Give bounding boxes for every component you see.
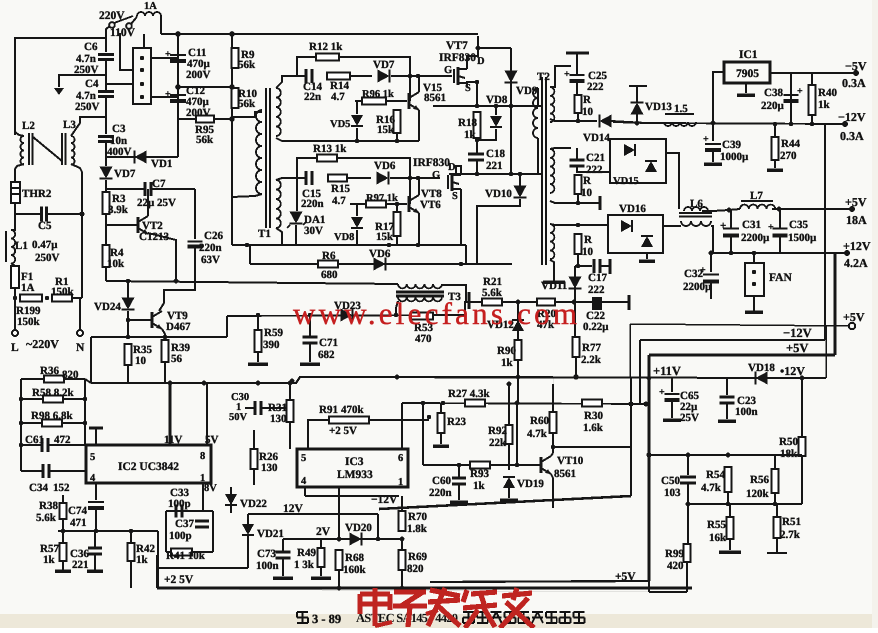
red watermark char dian (360, 591, 390, 596)
right scan band (872, 0, 878, 628)
VT10 collector (551, 453, 553, 456)
svg-text:160k: 160k (343, 564, 367, 576)
row y455 (649, 454, 802, 456)
resistor R53 (411, 313, 433, 320)
C50 col top (687, 455, 689, 475)
x339 drop (338, 487, 340, 539)
inductor L1 (11, 230, 15, 264)
R38 stub (62, 495, 64, 503)
svg-text:5.6k: 5.6k (36, 512, 57, 524)
R31 top (289, 383, 291, 400)
svg-text:4.7: 4.7 (331, 91, 345, 103)
svg-text:R40: R40 (818, 87, 837, 99)
resistor R49 (318, 548, 325, 567)
svg-text:63V: 63V (201, 254, 220, 266)
y539 x378 (376, 537, 380, 541)
svg-text:30V: 30V (304, 225, 323, 237)
wire y245 to y264 left (249, 245, 251, 264)
wire L6 top out (702, 210, 729, 211)
y504 x728 (726, 502, 730, 506)
wire w1 top lead (550, 66, 571, 87)
svg-text:VT6: VT6 (420, 199, 441, 211)
svg-text:2V: 2V (316, 526, 331, 538)
junction loop bottom 357 (355, 139, 359, 143)
svg-text:470k: 470k (341, 404, 365, 416)
wire T1 w1 top lead (276, 76, 305, 88)
resistor R54 (725, 467, 732, 492)
switch S1 lever (114, 16, 133, 23)
+5V rail (779, 208, 851, 210)
junction rail R39 (163, 335, 167, 339)
resistor R39 (162, 340, 169, 362)
svg-text:0.3A: 0.3A (842, 76, 866, 90)
bottom rail upturn (156, 555, 158, 588)
red watermark char fa (430, 590, 460, 596)
svg-text:1A: 1A (144, 1, 157, 12)
C34 lead r (49, 470, 87, 472)
junction w1 Ra (576, 119, 580, 123)
svg-text:1A: 1A (21, 282, 35, 294)
junction w3 r10c (576, 223, 580, 227)
svg-text:270: 270 (780, 150, 797, 162)
transformer T2 core (541, 77, 543, 265)
resistor R14 (327, 73, 350, 80)
row y403 (402, 403, 646, 404)
C30 leads (245, 407, 255, 409)
-12V drop line x825 (824, 124, 826, 340)
junction rail R9 (229, 31, 235, 37)
wire L7 leads (729, 209, 740, 210)
transformer T1 primary (256, 110, 262, 194)
ground C65 (663, 418, 681, 422)
svg-text:+5V: +5V (615, 571, 636, 583)
resistor R91 (329, 417, 369, 424)
resistor R90 (515, 340, 522, 360)
junction r44 rail (773, 122, 777, 126)
transformer T3 top winding (398, 284, 442, 288)
top rail y34 (161, 33, 478, 35)
svg-text:7905: 7905 (736, 68, 759, 80)
svg-text:R49: R49 (297, 547, 316, 559)
VT10 emitter (551, 474, 553, 508)
pin4 drop (304, 487, 306, 496)
junction rail q 204 (202, 381, 207, 386)
junction VD9 y174 (509, 172, 513, 176)
junction loop bottom 397 (395, 139, 399, 143)
wire selector right upper (151, 57, 178, 59)
R56 bottom (774, 493, 776, 504)
wire C31 top (730, 210, 732, 228)
svg-text:R50: R50 (779, 436, 798, 448)
svg-text:VD7: VD7 (114, 168, 136, 180)
svg-text:+: + (165, 49, 171, 60)
diode VD20 (350, 533, 362, 546)
VT10 collector row (553, 446, 631, 448)
R55 top (729, 504, 731, 517)
wire 5V drop (206, 383, 208, 445)
svg-text:D: D (477, 56, 485, 67)
y403 x423 (421, 401, 425, 405)
svg-text:L1: L1 (15, 240, 28, 252)
wire R16 bottom (396, 133, 398, 141)
wire R13 left (297, 158, 317, 178)
x649 y455 dot (646, 452, 651, 457)
svg-text:56k: 56k (238, 59, 256, 71)
wire VT2 emitter down (148, 233, 176, 281)
wire C35 bottom (779, 236, 781, 253)
pin4 column (95, 483, 97, 500)
wire VD8b bottom (356, 230, 358, 245)
junction y315 r59 (256, 313, 260, 317)
svg-text:56k: 56k (238, 98, 256, 110)
svg-text:2200μ: 2200μ (741, 232, 770, 244)
transistor VT6 (408, 196, 411, 212)
wire VT2 base (106, 224, 138, 226)
resistor R1 (52, 295, 72, 302)
ground R57 (55, 569, 71, 573)
switch S1 pole 1 (109, 22, 115, 28)
wire T1 primary top (232, 112, 262, 117)
mid rail y337 (91, 336, 227, 338)
svg-text:+: + (659, 387, 665, 398)
svg-text:120k: 120k (746, 488, 770, 500)
svg-text:R30: R30 (584, 410, 603, 422)
resistor R41 (171, 549, 192, 556)
terminal L (12, 330, 18, 336)
choke L2 top lead (15, 132, 24, 136)
wire DA1 column (296, 178, 298, 211)
svg-text:R68: R68 (345, 552, 364, 564)
svg-text:10: 10 (582, 106, 594, 118)
loop left x166 (165, 511, 167, 552)
capacitor C73 (276, 551, 291, 554)
svg-text:R: R (584, 234, 593, 246)
wire VD1 row (106, 156, 178, 158)
junction F1 R199 (13, 296, 17, 300)
svg-text:R58 8.2k: R58 8.2k (32, 387, 74, 399)
wire base row y204 (350, 203, 407, 205)
svg-text:VD16: VD16 (619, 203, 646, 215)
svg-text:C17: C17 (588, 272, 607, 284)
+12V rail (711, 252, 846, 254)
wire R40 bottom (811, 115, 813, 124)
rail dot r42 (130, 587, 132, 589)
capacitor C6 (98, 53, 114, 56)
svg-text:4: 4 (90, 473, 96, 484)
junction R199 R1 (45, 296, 49, 300)
svg-text:470: 470 (415, 333, 432, 345)
wire R95 left (178, 118, 196, 120)
junction rail q 258 (256, 381, 261, 386)
svg-text:G: G (444, 65, 452, 76)
svg-text:110V: 110V (110, 27, 136, 39)
ground C73 (273, 576, 293, 580)
svg-text:100p: 100p (169, 530, 192, 542)
wire R14 to VD7 (350, 75, 372, 77)
svg-text:LM933: LM933 (337, 469, 373, 481)
wire C39 column (712, 123, 714, 141)
resistor R12 (316, 54, 339, 61)
wire C32 bottom (710, 282, 712, 299)
svg-text:R15: R15 (331, 183, 350, 195)
resistor R26 (251, 449, 258, 469)
caption kanji 4 (518, 611, 529, 613)
wire R9 column (231, 34, 233, 119)
wire w1 bottom lead (550, 119, 597, 121)
svg-text:1k: 1k (818, 99, 831, 111)
R60 vt10 dot (551, 445, 555, 449)
junction x631 R30 (628, 401, 633, 406)
R49 top (320, 539, 322, 548)
rail dot r69 (400, 586, 405, 591)
R98 leads (21, 422, 42, 424)
resistor R68 (336, 550, 343, 570)
R60 bottom (552, 433, 554, 453)
wire VD24 below (127, 311, 129, 337)
rectifier box VD16 (608, 215, 663, 253)
ground R55 (719, 550, 741, 554)
resistor R10 (232, 88, 239, 108)
resistor R56 (772, 469, 779, 493)
svg-text:C31: C31 (742, 219, 761, 231)
row y465 (423, 464, 541, 466)
svg-text:222: 222 (587, 81, 604, 93)
svg-text:+: + (768, 222, 774, 233)
ground C60 (450, 500, 468, 504)
R69 top (401, 539, 403, 550)
transistor VT2 (137, 217, 140, 233)
svg-text:221: 221 (486, 160, 503, 172)
svg-text:VD1: VD1 (151, 158, 172, 170)
y455 x649 (647, 453, 652, 458)
capacitor C71 (303, 336, 318, 339)
svg-text:VD9: VD9 (516, 85, 538, 97)
resistor R50 (799, 437, 806, 456)
wire L1 bottom to F1 (11, 263, 15, 266)
svg-text:1k: 1k (136, 554, 149, 566)
svg-text:C21: C21 (586, 152, 605, 164)
R51 top (776, 504, 778, 517)
T3 lead bar (468, 292, 471, 309)
ground C23 (718, 419, 736, 423)
wire C6 to C4 (105, 60, 107, 91)
svg-text:G: G (432, 170, 440, 181)
wire C5 right (47, 213, 82, 215)
wire VT5 collector up (418, 76, 420, 92)
resistor R44 (772, 137, 779, 160)
svg-text:+2 5V: +2 5V (164, 574, 194, 586)
svg-text:VD6: VD6 (369, 248, 391, 260)
svg-text:1.8k: 1.8k (407, 523, 428, 535)
terminal circle +5V (849, 323, 855, 329)
resistor R16 (394, 110, 401, 133)
svg-text:250V: 250V (75, 101, 100, 113)
red watermark char you (502, 593, 532, 596)
wire C23 stub (726, 378, 728, 395)
terminal N (77, 330, 83, 336)
svg-text:8: 8 (200, 451, 205, 462)
wire R77 top (574, 302, 576, 337)
wire L6 bottom out (711, 226, 713, 253)
y539 x402 (400, 537, 405, 542)
svg-text:0.47μ: 0.47μ (32, 239, 58, 251)
R99 top (687, 504, 689, 544)
x378 drop (377, 514, 379, 539)
C74 bottom (95, 509, 97, 531)
terminal -5V (853, 70, 859, 76)
svg-text:C73: C73 (257, 548, 276, 560)
svg-text:N: N (76, 342, 85, 354)
choke L3 core (61, 133, 63, 165)
wire C23 bottom (726, 403, 728, 419)
wire R21 row (471, 301, 482, 303)
diode VD10 (514, 186, 527, 198)
wire IC1 gnd (745, 83, 747, 93)
diode VD7 left (100, 167, 113, 179)
selector contact 2 (140, 68, 144, 72)
wire C71 bottom (309, 343, 311, 362)
svg-text:IC2 UC3842: IC2 UC3842 (118, 461, 179, 473)
junction y245 389 (387, 243, 391, 247)
capacitor C21 (570, 159, 585, 162)
capacitor C36 (88, 547, 102, 550)
wire VD14 to rail (611, 121, 646, 123)
ground arrow left (54, 88, 64, 95)
svg-text:22μ 25V: 22μ 25V (137, 197, 176, 209)
R26 top (253, 430, 255, 449)
svg-text:15k: 15k (377, 124, 395, 136)
resistor R40 (809, 85, 816, 115)
junction rail p R90 (516, 375, 521, 380)
R57 top (62, 531, 64, 543)
R70 top (401, 496, 403, 511)
capacitor C14 (305, 69, 308, 83)
junction c32 (709, 251, 714, 256)
wire C17 row (578, 265, 592, 267)
svg-text:+5V: +5V (786, 341, 808, 355)
svg-text:C38: C38 (764, 87, 783, 99)
choke L3 top lead (71, 117, 106, 136)
VD16 ground stub (646, 253, 648, 259)
resistor R97 (366, 201, 386, 208)
svg-text:R51: R51 (782, 516, 801, 528)
wire return y245 (232, 244, 466, 246)
drop x630 (629, 324, 631, 378)
junction VD9 y106 (509, 104, 513, 108)
row y504 (688, 503, 802, 505)
svg-text:−5V: −5V (845, 59, 867, 73)
IC3 box (297, 449, 408, 487)
svg-text:R55: R55 (707, 519, 726, 531)
wire R20 right (555, 301, 592, 303)
wire C5 left (15, 213, 41, 215)
junction r17 top (395, 202, 399, 206)
svg-text:VD21: VD21 (257, 528, 284, 540)
R36 lead r (64, 378, 85, 380)
-12V row y340 (640, 339, 825, 341)
loop right x213 (212, 511, 214, 552)
svg-text:3 - 89: 3 - 89 (312, 612, 341, 626)
capacitor C17 (593, 259, 596, 273)
wire VD8b column (356, 204, 358, 216)
diode VD6 lower (374, 258, 386, 271)
svg-text:220n: 220n (301, 198, 324, 210)
caption kanji 0 (463, 611, 474, 613)
svg-text:220μ: 220μ (761, 100, 785, 112)
svg-text:L3: L3 (63, 119, 76, 131)
y403 x443 (441, 401, 445, 405)
svg-text:R90: R90 (497, 345, 516, 357)
zener VD12 (512, 320, 524, 331)
svg-text:C60: C60 (432, 475, 451, 487)
svg-text:C3: C3 (112, 123, 126, 135)
y504 x775 (773, 502, 777, 506)
capacitor C22 (592, 297, 602, 310)
choke core diagonal (33, 137, 62, 161)
junction rail p 397 (395, 375, 400, 380)
wire sense row y281 (106, 281, 398, 284)
red watermark char zi (394, 589, 426, 594)
svg-text:VD18: VD18 (748, 362, 775, 374)
svg-text:R6: R6 (322, 250, 336, 262)
rail y589 main (157, 589, 649, 592)
voltage selector box K1 (133, 48, 151, 104)
svg-text:+: + (700, 265, 706, 276)
junction y174 vd10 (518, 172, 522, 176)
wire switch pole1 down (106, 26, 110, 52)
wire C31 bottom (730, 236, 732, 253)
svg-text:220n: 220n (199, 242, 222, 254)
choke L2 bottom lead (15, 164, 24, 182)
wire C38 column (790, 73, 792, 124)
diode VD18 (756, 372, 768, 385)
wire VD10 column (519, 174, 521, 186)
svg-text:R38: R38 (39, 500, 58, 512)
ground VD19 (500, 498, 518, 502)
ground R49 (311, 576, 331, 580)
wire VT7 drain node (477, 48, 479, 56)
junction fan rail (752, 251, 756, 255)
svg-text:100p: 100p (168, 498, 191, 510)
resistor R6 (318, 261, 338, 268)
R31 rail dot (288, 381, 292, 385)
C34 lead l (21, 470, 43, 472)
wire C65 stub (671, 378, 673, 392)
wire C65 bottom (671, 401, 673, 418)
wire VD11 column (574, 266, 576, 302)
svg-text:C34: C34 (29, 482, 48, 494)
capacitor C37 (195, 520, 209, 523)
wire R15 to VD6 (347, 177, 371, 179)
svg-text:−12V: −12V (838, 110, 866, 124)
R57 bottom (62, 561, 64, 570)
wire sense row y285 right (442, 285, 466, 302)
junction doubler mid left (175, 84, 181, 90)
diode VD6 upper (377, 172, 389, 185)
capacitor C15 (305, 171, 308, 185)
capacitor C38 (784, 94, 799, 96)
fan box (745, 263, 764, 296)
svg-text:R60: R60 (530, 415, 549, 427)
vertical x631 (630, 378, 632, 496)
resistor R42 (128, 543, 135, 561)
zener VD21 (242, 524, 254, 535)
T2 secondary winding 2 (550, 149, 554, 193)
wire VT5 emitter down (418, 110, 420, 141)
T2 secondary winding 1 (550, 87, 554, 122)
R50 bottom link (801, 455, 803, 504)
svg-text:R93: R93 (470, 468, 489, 480)
